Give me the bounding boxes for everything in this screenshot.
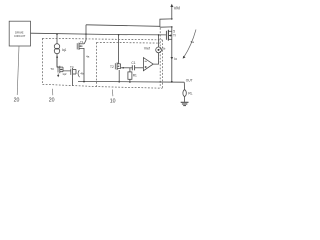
OUT label xyxy=(186,79,193,83)
outer dashed box 10: left edge xyxy=(41,38,43,84)
T2 feed wire xyxy=(118,34,120,36)
wire T4 down to dashed edge xyxy=(72,76,74,86)
current source Iq1 xyxy=(54,44,59,49)
wire T1 down to rail xyxy=(83,51,85,82)
label 20 (drive circuit) xyxy=(14,98,20,104)
wire T2 emitter to rail xyxy=(118,70,120,82)
svg-text:T1: T1 xyxy=(80,40,84,44)
svg-text:VM: VM xyxy=(174,5,181,10)
label 5b xyxy=(162,47,166,51)
node: junction main wire at x=86 xyxy=(85,33,87,35)
svg-text:5a: 5a xyxy=(191,40,195,44)
resistor R1 xyxy=(129,68,131,72)
svg-text:Iq1: Iq1 xyxy=(62,48,67,52)
svg-text:C1: C1 xyxy=(131,61,135,65)
svg-text:10: 10 xyxy=(110,98,116,104)
leader for label 10 xyxy=(111,90,114,97)
ground xyxy=(181,101,189,103)
leader arc 5a xyxy=(184,30,196,58)
leader line for 20 xyxy=(17,46,19,95)
outer dashed box 10: right edge xyxy=(161,40,163,88)
transistor T1 xyxy=(79,43,84,45)
node junction dot xyxy=(56,56,58,58)
svg-text:RL: RL xyxy=(188,92,192,96)
wire C1 to comparator xyxy=(135,67,144,69)
arrow below T3 xyxy=(57,74,59,77)
wire to ground xyxy=(184,96,186,102)
svg-text:4a: 4a xyxy=(86,54,90,58)
leader for label 20 (inner left box) xyxy=(52,89,54,96)
label Vref xyxy=(144,47,150,51)
svg-text:R1: R1 xyxy=(133,73,137,77)
node: junction on main wire at current source xyxy=(56,33,58,35)
svg-text:5b: 5b xyxy=(162,47,166,51)
output transistor Tr xyxy=(165,31,167,40)
transistor T4 xyxy=(70,65,74,69)
wire below Iq1 xyxy=(56,54,58,67)
svg-text:T2: T2 xyxy=(110,65,114,69)
wire T3 to T4 xyxy=(63,67,71,72)
drive circuit box 20 xyxy=(9,21,30,46)
wire x=86 down to transistor T1 xyxy=(84,34,86,44)
svg-text:20: 20 xyxy=(49,98,55,104)
VM supply arrow xyxy=(171,5,173,19)
bracket 4b xyxy=(78,70,80,77)
capacitor C1 xyxy=(131,65,133,70)
svg-text:4b: 4b xyxy=(80,72,84,76)
comparator triangle xyxy=(143,58,153,71)
svg-text:Vref: Vref xyxy=(144,47,150,51)
reference source circle xyxy=(156,47,162,53)
wire down to current source Iq1 xyxy=(56,34,58,44)
inner dashed box: left edge xyxy=(96,42,98,86)
svg-text:T4: T4 xyxy=(70,65,74,69)
svg-text:CIRCUIT: CIRCUIT xyxy=(14,34,26,38)
wire x=86 vertical up to internal rail xyxy=(85,25,87,34)
svg-text:20: 20 xyxy=(14,98,20,104)
load RL oval xyxy=(183,90,186,97)
svg-text:OUT: OUT xyxy=(186,79,193,83)
Io current arrow xyxy=(171,57,174,60)
svg-text:Io: Io xyxy=(174,57,177,61)
wire internal top rail to sense box xyxy=(86,25,160,27)
internal bottom rail xyxy=(78,80,184,83)
wire T2 to C1 xyxy=(121,67,133,69)
inner dashed box: right edge xyxy=(159,28,161,88)
transistor T2 xyxy=(110,65,114,69)
wire to load xyxy=(183,82,185,90)
comparator output to circle xyxy=(153,53,158,64)
wire: main gate wire from drive box to output transistor gate xyxy=(31,33,167,35)
outer dashed box 10: top edge xyxy=(42,38,162,40)
main output vertical wire xyxy=(171,27,173,82)
label 10 xyxy=(110,98,116,104)
inner dashed box: top edge xyxy=(97,41,161,44)
sense resistor box at top right xyxy=(160,19,172,27)
label 20 xyxy=(49,98,55,104)
label 4a xyxy=(86,54,90,58)
transistor T3 xyxy=(50,67,54,71)
outer dashed box 10: bottom edge xyxy=(42,84,162,88)
svg-text:T3: T3 xyxy=(50,67,54,71)
svg-text:Iq2: Iq2 xyxy=(63,72,67,76)
